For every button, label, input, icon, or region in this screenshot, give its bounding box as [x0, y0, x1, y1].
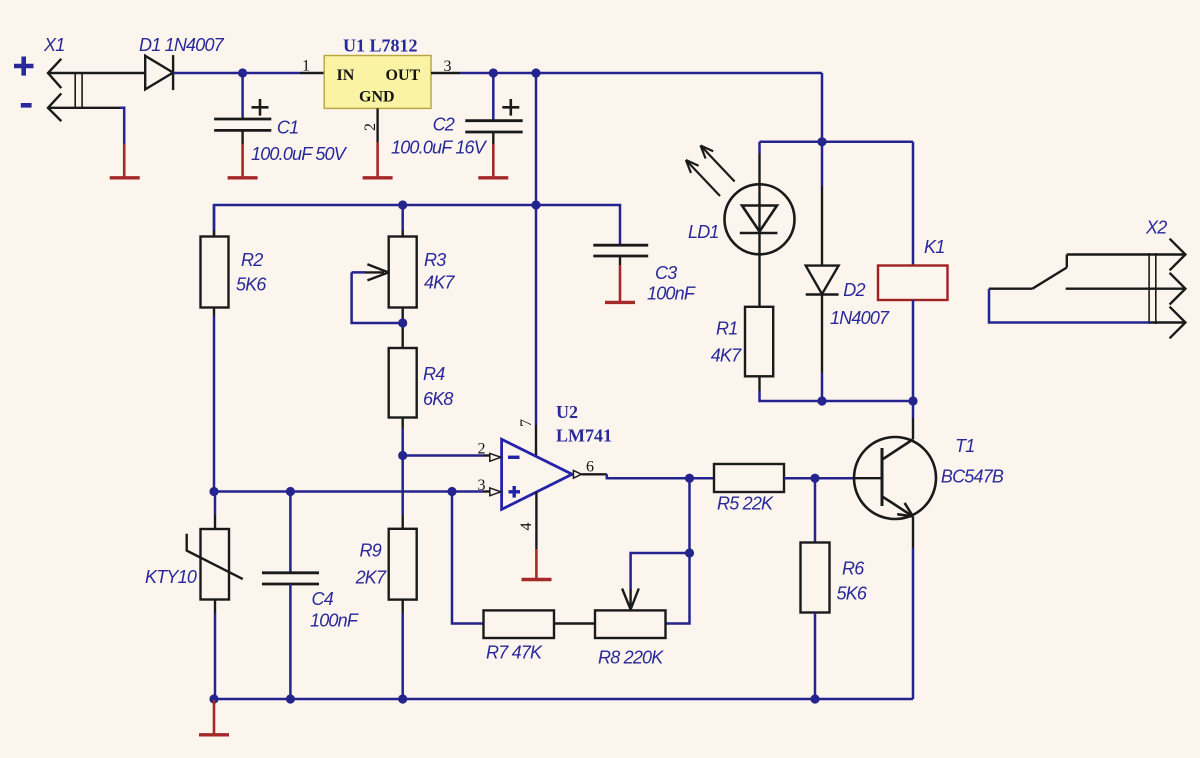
svg-text:4K7: 4K7 [711, 346, 742, 366]
node rail-to-divider [531, 68, 540, 77]
ground (U2) [522, 549, 552, 580]
svg-text:100nF: 100nF [647, 284, 696, 304]
svg-text:3: 3 [478, 477, 486, 494]
ground (C1) [228, 144, 258, 178]
svg-text:1N4007: 1N4007 [830, 308, 890, 328]
wire C2 to ground [492, 132, 494, 144]
wire U1 pin3 to rail [431, 72, 460, 74]
sensor KTY10 [187, 492, 243, 700]
svg-text:R5 22K: R5 22K [717, 494, 774, 514]
wire C3 to ground [619, 256, 621, 265]
svg-text:K1: K1 [924, 237, 944, 257]
diode D1 [145, 55, 173, 90]
svg-text:C1: C1 [277, 118, 298, 138]
opamp input arrowhead pin2 [490, 453, 501, 461]
wire inverting input net [403, 454, 483, 457]
svg-text:100.0uF 50V: 100.0uF 50V [251, 144, 348, 164]
svg-text:BC547B: BC547B [941, 467, 1004, 487]
wire LED top bus [760, 141, 914, 144]
wire X1+ to D1 [48, 72, 145, 74]
X1 minus mark [21, 103, 32, 108]
wire bottom bus [214, 698, 913, 701]
ground (U1) [363, 142, 393, 178]
wire non-inverting input net [214, 490, 483, 493]
ground (X1) [110, 144, 140, 178]
R8 wiper arrow [622, 589, 639, 610]
resistor R4 [389, 348, 417, 456]
capacitor C4 [262, 492, 319, 700]
wire X2 common [989, 289, 1150, 323]
X1 plus mark [14, 57, 34, 76]
resistor R6 [801, 478, 830, 699]
svg-text:IN: IN [337, 67, 355, 84]
wire node to C1 [241, 73, 244, 119]
connector X2 [989, 239, 1185, 339]
node R2/KTY [209, 487, 218, 496]
wire C1 to ground [241, 130, 243, 144]
svg-text:R4: R4 [423, 364, 445, 384]
wire D1 to U1 pin1 [173, 72, 300, 75]
svg-text:U2: U2 [556, 402, 578, 422]
wire opamp output [581, 473, 606, 475]
node inverting input [398, 451, 407, 460]
svg-text:1: 1 [302, 58, 310, 75]
wire 12V down from rail [535, 73, 538, 205]
opamp input arrowhead pin3 [490, 488, 501, 496]
svg-text:T1: T1 [955, 436, 974, 456]
node at C1 [238, 68, 247, 77]
svg-text:5K6: 5K6 [236, 275, 267, 295]
wire X1- to ground [48, 107, 120, 109]
node rail2 R3 [398, 200, 407, 209]
node bus R9 [398, 694, 407, 703]
wire node to C2 [492, 73, 495, 121]
wire down to LED [758, 142, 761, 154]
wire to R8 wiper [631, 553, 690, 589]
C2 plus mark [502, 99, 519, 116]
node C4 [286, 487, 295, 496]
svg-text:OUT: OUT [386, 67, 421, 84]
regulator U1 box [324, 56, 431, 109]
wire opamp pin4 to ground [535, 492, 537, 549]
potentiometer R8 [595, 610, 666, 638]
C1 plus mark [252, 99, 269, 116]
svg-text:R9: R9 [360, 541, 382, 561]
svg-text:6: 6 [586, 459, 594, 476]
node output [685, 474, 694, 483]
node rail2 opamp supply [531, 200, 540, 209]
wire feedback riser [666, 478, 690, 623]
relay K1 [878, 142, 948, 401]
svg-text:6K8: 6K8 [423, 389, 453, 409]
resistor R9 [389, 529, 417, 699]
node C2 [489, 68, 498, 77]
capacitor C3 [593, 245, 648, 256]
svg-text:5K6: 5K6 [837, 584, 868, 604]
svg-text:C4: C4 [312, 589, 334, 609]
wire U1 GND pin to ground [376, 108, 378, 142]
capacitor C2 [465, 121, 522, 132]
svg-text:D1 1N4007: D1 1N4007 [139, 35, 225, 55]
potentiometer R3 [389, 205, 417, 348]
svg-text:X1: X1 [43, 35, 64, 55]
wire to T1 collector [912, 401, 915, 418]
ground (C2) [478, 144, 508, 178]
capacitor C1 [214, 119, 271, 130]
svg-text:X2: X2 [1145, 218, 1167, 238]
node bus R6 [810, 694, 819, 703]
svg-text:GND: GND [359, 89, 395, 106]
node R7 riser [447, 487, 456, 496]
resistor R5 [714, 464, 815, 492]
svg-text:7: 7 [518, 419, 535, 427]
svg-text:R3: R3 [424, 250, 446, 270]
transistor T1 [854, 437, 936, 519]
svg-text:2K7: 2K7 [355, 568, 387, 588]
wire rail to LED section [821, 73, 824, 142]
wire R3 wiper loop [352, 272, 403, 323]
wire T1 emitter down [912, 517, 914, 549]
node bus C4 [286, 694, 295, 703]
svg-text:R6: R6 [842, 559, 865, 579]
node R3 loop [398, 318, 407, 327]
op-amp U2 [502, 439, 572, 509]
resistor R1 [745, 254, 822, 401]
svg-text:LM741: LM741 [556, 426, 612, 446]
resistor R2 [201, 205, 229, 492]
svg-text:KTY10: KTY10 [145, 567, 197, 587]
wire R7-R8 [554, 622, 595, 624]
svg-text:D2: D2 [843, 280, 865, 300]
node LED bottom bus left [817, 396, 826, 405]
ground (main) [199, 700, 229, 735]
node bus KTY [209, 694, 218, 703]
wire opamp pin7 [535, 205, 538, 425]
svg-text:C2: C2 [433, 115, 455, 135]
node LED section [817, 137, 826, 146]
wire to T1 base [815, 477, 854, 480]
svg-text:100.0uF 16V: 100.0uF 16V [391, 138, 488, 158]
diode D2 [806, 142, 839, 401]
svg-text:4: 4 [518, 523, 535, 531]
svg-text:C3: C3 [655, 263, 677, 283]
ground (C3) [605, 265, 635, 302]
svg-text:U1 L7812: U1 L7812 [343, 36, 418, 56]
LED arrows [686, 146, 735, 197]
svg-text:R2: R2 [241, 250, 263, 270]
R3 wiper arrow [365, 264, 389, 280]
wire R9 column [401, 456, 404, 516]
svg-text:R8 220K: R8 220K [598, 648, 664, 668]
svg-text:4K7: 4K7 [424, 273, 455, 293]
LED LD1 [725, 184, 795, 254]
node LED bottom bus right [908, 396, 917, 405]
svg-text:100nF: 100nF [310, 611, 359, 631]
svg-text:2: 2 [478, 441, 486, 458]
wire output to R5 [690, 477, 715, 480]
wire LED bottom bus [822, 400, 913, 403]
node feedback [685, 548, 694, 557]
resistor R7 [452, 492, 554, 639]
svg-text:R7 47K: R7 47K [486, 643, 543, 663]
wire rail2 [214, 205, 620, 245]
node base/R6 [810, 474, 819, 483]
connector X1 [48, 59, 82, 121]
svg-text:LD1: LD1 [688, 222, 719, 242]
opamp output arrowhead [573, 470, 581, 478]
svg-text:R1: R1 [716, 319, 737, 339]
